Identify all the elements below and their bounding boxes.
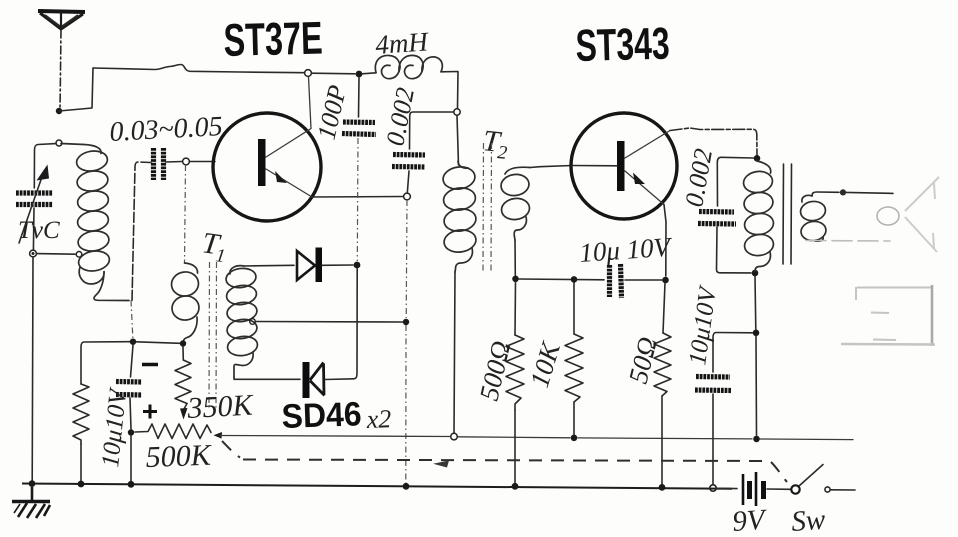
wire osc coil bottom to B- rail [454,272,455,433]
diode D2 triangle [310,363,325,396]
wire C3 to emitter node [407,171,409,193]
variable capacitor TvC plates [16,190,53,195]
wire 350K top [182,347,184,360]
capacitor C2 100P bottom plate [342,134,376,135]
inductor L1 4mH [375,55,442,78]
transformer T1 core [208,262,211,408]
node detector node [354,262,361,269]
resistor R2 wiper arrow [184,404,187,410]
dashed line arrow [433,461,449,468]
node ground R1 leg [78,481,85,488]
transformer T2 core [482,143,485,272]
inductor antenna coil (tuning coil) [61,144,129,301]
wire D2 anode to corner [325,269,357,380]
transistor Q2 base bar [617,141,625,191]
diode D1 anode wire [244,264,294,267]
node collector of Q1 (open) [305,70,312,77]
wire Q1 emitter to emitter node [312,196,403,199]
wire TvC junction to coil tap [36,253,75,256]
wire 10K top lead [573,283,575,334]
wire D1 to detector node [322,264,353,266]
node osc coil B- junction (open) [451,433,458,440]
capacitor C5 electrolytic right plate [621,264,622,298]
node AGC node [130,339,136,345]
node emitter rail right junction [662,277,669,284]
svg-text:4mH: 4mH [374,26,430,60]
wire R1 to ground bus [80,444,82,482]
wire OT line to B- rail [755,336,758,435]
node coil tap (open) [76,252,82,258]
potentiometer R3 500K zigzag [135,424,211,439]
wire 4mH to right corner [441,72,458,109]
antenna ANT [38,11,85,29]
wire emitter node down to tap node [405,200,408,318]
wire C1 to base node [166,161,182,164]
transistor Q1 base bar [258,139,266,186]
wire top rail to collector node [93,65,304,73]
node osc-coil top (open) [454,109,460,115]
diode D2 cathode bar [303,362,310,398]
capacitor C4 plus mark [143,405,157,419]
speaker magnet [841,285,935,346]
svg-text:ST37E: ST37E [223,11,323,66]
capacitor C7 top plate [696,374,730,380]
svg-text:ST343: ST343 [575,18,670,71]
transistor Q2 collector stroke [625,131,670,159]
node base node Q1 (open) [183,158,190,165]
resistor R2 350K zigzag [175,360,191,404]
transformer T1 secondary winding [225,266,259,378]
capacitor C2 100P top plate [343,119,375,125]
capacitor C4 10u10V electrolytic minus mark [142,363,158,367]
wire battery to switch [767,488,790,490]
resistor R6 50ohm zigzag [654,333,671,396]
capacitor C6 0.002 top plate [699,209,734,215]
svg-text:Sw: Sw [790,504,827,537]
capacitor C3 0.002 top plate [393,152,425,158]
ground bus wire [22,484,732,489]
capacitor C3 0.002 bottom plate [392,164,425,170]
capacitor C7 bottom plate [695,387,731,393]
wire ground leg left [31,257,34,481]
wire base node to Q1 base [190,161,216,163]
wire 50ohm top lead [663,283,665,333]
node pot left node [128,429,134,435]
node TvC bottom junction [30,250,37,257]
svg-text:x2: x2 [365,404,392,434]
node ground 50ohm junction [659,484,666,491]
speaker cone [905,177,939,252]
node B- OT junction [753,436,760,443]
wire OT bottom down [754,276,757,329]
wire Q2 collector to OT [670,128,757,155]
node OT primary bottom junction [752,270,759,277]
wire TvC bottom lead [32,208,35,250]
speaker voice coil ellipse [877,207,899,225]
wire B- rail with pot arrow [214,432,223,439]
wire C2 to detector node [356,138,359,261]
node ground antenna leg [29,480,36,487]
node speaker top junction [840,189,846,195]
wire top to C2 [358,77,361,117]
dashed gang line pot to switch [222,441,787,482]
transistor Q2 base wire [572,165,617,167]
transistor Q1 emitter stroke [266,169,312,197]
wire ground bus to battery [716,487,737,489]
wire bypass junction to C7 [713,333,753,373]
wire to variable capacitor TvC [34,144,56,188]
wire 50ohm bottom to ground bus [661,396,663,484]
variable capacitor TvC arrow [19,171,44,243]
wire pot node to ground bus [130,436,132,482]
resistor R5 10K zigzag [565,334,583,402]
svg-text:350K: 350K [186,389,256,426]
transistor Q2 emitter stroke [625,171,664,205]
node input junction (open) [56,140,62,146]
wire into 4mH [362,73,376,74]
transformer OT primary winding [742,161,775,272]
wire coil bottom to AGC node [131,301,133,342]
wire C4 to pot node [130,398,131,429]
svg-text:500K: 500K [145,439,213,474]
wire T2 secondary bottom down [514,240,516,275]
wire T1 secondary bottom to D2 [234,378,300,380]
svg-text:9V: 9V [731,504,769,537]
wire 500ohm bottom to ground bus [514,410,516,483]
wire T2 secondary top to Q2 base [530,166,572,168]
svg-text:TvC: TvC [18,217,60,244]
resistor R1 (bias) zigzag [73,384,89,444]
wire Q2 emitter down [664,205,666,277]
node emitter rail 10K junction [571,276,578,283]
wire antenna lead [60,30,61,111]
switch SW lever [799,465,823,487]
node antenna junction [56,108,62,114]
transistor Q2 emitter arrow [633,173,645,185]
capacitor C4 bottom plate [116,392,142,398]
wire 10K bottom to B- rail [573,402,575,434]
node ground pot leg [128,481,135,488]
diode D1 triangle [297,251,315,280]
wire AGC node to C4 [131,345,134,377]
wire C1 left lead and drop [132,162,151,301]
wire C7 to ground bus [712,394,714,484]
node B- 10K junction [571,435,578,442]
wire 500ohm top lead [514,282,517,335]
node emitter node (open) [404,193,411,200]
svg-text:0.03~0.05: 0.03~0.05 [109,111,224,148]
wire C6 bottom to OT bottom [717,227,752,273]
resistor R4 500ohm zigzag [506,335,524,410]
switch SW pole (open) [791,485,799,493]
wire center tap to tap node [255,321,402,324]
wire emitter rail left [519,278,604,281]
wire switch to right [831,489,856,491]
diode D1 cathode bar [316,248,323,283]
wire C5 right to emitter node [625,279,662,281]
capacitor C1 0.03-0.05 left plate [151,148,156,180]
wire OT top to C6 [717,157,753,206]
node ground 500ohm junction [512,483,519,490]
capacitor C5 electrolytic left plate [607,265,612,297]
transformer T2 secondary winding [500,167,531,240]
capacitor C6 0.002 bottom plate [698,221,736,227]
wire osc-coil top to C3 [410,112,454,149]
node ground crease junction [403,483,410,490]
node T1 secondary center tap (open) [250,319,256,325]
transistor Q1 ST37E circle [213,113,321,221]
wire speaker top lead right [846,192,893,193]
wire antenna to top rail riser [59,68,93,111]
wire collector node to 100P node [312,72,356,75]
wire speaker top lead [812,192,839,196]
node OT primary top junction [754,155,761,162]
wire base node down to T1 primary [185,165,186,263]
wire down to oscillator coil [457,116,459,166]
svg-text:SD46: SD46 [281,395,362,436]
transistor Q1 emitter arrow [275,171,287,183]
ground symbol [12,487,50,518]
transformer T1 primary winding [170,263,201,343]
node T1 tap wire junction [403,319,409,325]
transformer OT core [782,164,785,264]
node junction top 100P [356,71,363,78]
node T1 primary bottom junction [180,340,186,346]
transformer OT secondary winding [799,195,827,242]
switch SW throw contact (open) [825,487,830,492]
capacitor C4 top plate [116,379,142,385]
transistor Q1 collector stroke [266,77,311,157]
battery B1 9V plates [743,472,764,506]
node bypass junction [753,330,760,337]
wire AGC rail to T1 bottom [136,342,180,344]
wire speaker bottom lead [806,240,890,243]
transistor Q2 ST343 circle [571,113,677,219]
wire AGC node rail [81,342,133,384]
inductor oscillator coil [442,161,478,272]
wire tap node down to ground bus (crease line) [405,325,407,483]
node ground C7 junction (open) [710,485,716,491]
capacitor C1 right plate [161,148,166,180]
node emitter rail left junction [512,276,519,283]
